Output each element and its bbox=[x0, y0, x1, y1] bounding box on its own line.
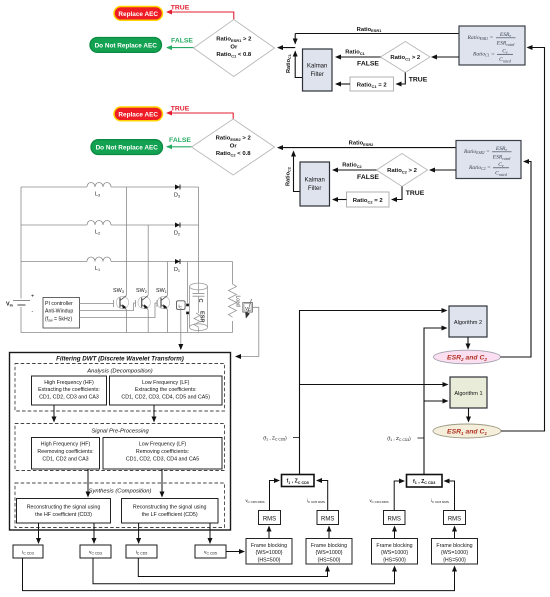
terminator Do Not Replace AEC row2 bbox=[91, 140, 163, 155]
svg-text:ESR2 and C2: ESR2 and C2 bbox=[447, 355, 487, 363]
process Ratio_C1=2 box bbox=[350, 77, 394, 91]
svg-text:High Frequency (HF): High Frequency (HF) bbox=[44, 380, 94, 386]
terminator Replace AEC row2 bbox=[114, 107, 163, 121]
wire iC CD5 bus to FB2 bbox=[138, 558, 327, 577]
wire SW3 vertical bbox=[126, 187, 128, 295]
diode D1 bbox=[174, 259, 180, 273]
svg-text:TRUE: TRUE bbox=[171, 105, 190, 112]
wire Ratio_C2=2 to Kalman2 bbox=[333, 199, 347, 201]
node L1 label bbox=[95, 266, 100, 272]
diode D3 bbox=[174, 185, 180, 199]
svg-text:L2: L2 bbox=[95, 230, 100, 236]
svg-text:RatioC1 = 2: RatioC1 = 2 bbox=[357, 83, 388, 89]
svg-text:Low Frequency (LF): Low Frequency (LF) bbox=[142, 380, 190, 386]
process f1 ZC CD3 box bbox=[407, 475, 443, 488]
svg-text:vC CD5: vC CD5 bbox=[204, 551, 217, 556]
node iC CD3 box bbox=[13, 545, 43, 558]
svg-text:iC CD3 RMS: iC CD3 RMS bbox=[431, 498, 449, 504]
svg-text:RatioESR1: RatioESR1 bbox=[357, 27, 382, 33]
wire Ratio_C1=2 to Kalman1 bbox=[336, 83, 350, 85]
process Ratio_C2=2 box bbox=[347, 192, 390, 207]
svg-text:RMS: RMS bbox=[448, 516, 461, 522]
process reconstruct HF box bbox=[17, 499, 111, 524]
wire TRUE drop row2 bbox=[392, 187, 425, 200]
process RMS 4 bbox=[444, 511, 466, 525]
svg-text:{WS=1000}: {WS=1000} bbox=[381, 550, 408, 556]
svg-text:Filtering DWT (Discrete Wavele: Filtering DWT (Discrete Wavelet Transfor… bbox=[56, 355, 184, 362]
svg-text:ESR: ESR bbox=[199, 311, 205, 323]
sensor iC probe bbox=[177, 262, 189, 333]
svg-text:{WS=1000}: {WS=1000} bbox=[441, 550, 468, 556]
capacitor C with ESR cylinder bbox=[190, 283, 208, 332]
svg-text:CD1, CD2 and CA3: CD1, CD2 and CA3 bbox=[42, 456, 88, 462]
svg-text:SW1: SW1 bbox=[156, 288, 167, 294]
svg-text:TRUE: TRUE bbox=[406, 190, 425, 197]
svg-text:{HS=500}: {HS=500} bbox=[258, 558, 281, 564]
svg-text:RMS: RMS bbox=[388, 516, 401, 522]
svg-text:Algorithm 2: Algorithm 2 bbox=[454, 320, 482, 326]
svg-text:Vin: Vin bbox=[6, 302, 14, 308]
inductor L2 bbox=[87, 221, 111, 226]
wire bottom rail bbox=[21, 307, 233, 333]
decision small diamond Ratio_C1>2 bbox=[381, 42, 431, 73]
node f1 ZC CD5 label bbox=[263, 435, 299, 441]
svg-text:Kalman: Kalman bbox=[305, 178, 325, 184]
svg-text:D2: D2 bbox=[174, 231, 180, 237]
svg-text:PI controller: PI controller bbox=[45, 301, 73, 307]
node iC CD5 box bbox=[126, 545, 157, 558]
group Synthesis dashed box bbox=[15, 483, 225, 528]
svg-text:Kalman: Kalman bbox=[307, 64, 327, 70]
svg-text:(f1 , ZC CD5): (f1 , ZC CD5) bbox=[263, 435, 287, 441]
svg-text:{WS=1000}: {WS=1000} bbox=[256, 550, 283, 556]
wire row L1 bbox=[21, 261, 87, 263]
wire fZ3 up to Algorithm2 input2 bbox=[424, 328, 447, 475]
svg-text:Frame blocking: Frame blocking bbox=[311, 543, 347, 549]
svg-text:Replace AEC: Replace AEC bbox=[118, 111, 158, 118]
transistor SW2 bbox=[136, 288, 151, 310]
svg-text:{HS=500}: {HS=500} bbox=[383, 558, 406, 564]
process reconstruct LF box bbox=[122, 499, 219, 524]
node f1 ZC CD3 label bbox=[387, 436, 424, 442]
svg-text:ESR1 and C1: ESR1 and C1 bbox=[447, 429, 487, 437]
terminator Replace AEC row1 bbox=[114, 7, 163, 21]
process PI controller box bbox=[43, 298, 80, 329]
wire eqbox1 to small diamond1 bbox=[432, 56, 459, 58]
node L3 label bbox=[95, 192, 100, 198]
svg-text:Frame blocking: Frame blocking bbox=[436, 543, 472, 549]
wire PI gate leads bbox=[80, 303, 158, 318]
process Frame blocking 3 bbox=[372, 539, 418, 565]
equations row2 bbox=[463, 146, 512, 177]
svg-text:the LF coefficient (CD5): the LF coefficient (CD5) bbox=[142, 512, 198, 518]
wire vC CD5 to FB1 bbox=[226, 551, 244, 553]
svg-text:Filter: Filter bbox=[311, 72, 324, 78]
svg-text:SW3: SW3 bbox=[113, 288, 124, 294]
process equation box row2 bbox=[456, 141, 521, 179]
process DWT outer box bbox=[10, 353, 231, 531]
process Frame blocking 1 bbox=[246, 539, 292, 565]
svg-text:RMS: RMS bbox=[263, 516, 276, 522]
process RMS 2 bbox=[317, 511, 339, 525]
process RMS 1 bbox=[259, 511, 281, 525]
group Signal Pre-Processing dashed box bbox=[15, 424, 225, 471]
wire red TRUE row1 bbox=[167, 12, 234, 20]
svg-text:CD1, CD2, CD3 and CA3: CD1, CD2, CD3 and CA3 bbox=[39, 395, 99, 401]
process f1 ZC CD5 box bbox=[282, 475, 315, 487]
svg-text:RatioC2: RatioC2 bbox=[286, 167, 292, 186]
svg-text:RatioC1 > 2: RatioC1 > 2 bbox=[390, 55, 421, 61]
wire green FALSE row2 bbox=[167, 146, 192, 148]
svg-text:+: + bbox=[31, 294, 34, 300]
svg-text:RatioC1: RatioC1 bbox=[345, 50, 365, 56]
wire ESR1C1 feedback to eqbox1 bbox=[501, 48, 545, 432]
transistor SW3 bbox=[113, 288, 129, 310]
process RMS 3 bbox=[384, 511, 406, 525]
process Kalman Filter row1 bbox=[303, 49, 333, 91]
svg-text:D3: D3 bbox=[174, 193, 180, 199]
wire SW2 vertical bbox=[147, 225, 149, 295]
inductor L1 bbox=[87, 257, 111, 262]
svg-text:Filter: Filter bbox=[308, 186, 321, 192]
process HF removing box bbox=[32, 438, 100, 470]
wire iC to DWT bbox=[180, 309, 182, 349]
transistor SW1 bbox=[156, 288, 170, 310]
svg-text:Low Frequency (LF): Low Frequency (LF) bbox=[139, 442, 187, 448]
svg-text:RatioESR2 > 2: RatioESR2 > 2 bbox=[216, 136, 252, 142]
svg-text:{HS=500}: {HS=500} bbox=[318, 558, 341, 564]
process Algorithm 1 box bbox=[450, 377, 487, 408]
svg-text:FALSE: FALSE bbox=[169, 137, 191, 144]
process HF extract box bbox=[32, 376, 107, 405]
svg-text:RatioC2 = 2: RatioC2 = 2 bbox=[353, 198, 384, 204]
svg-text:Frame blocking: Frame blocking bbox=[251, 543, 287, 549]
svg-text:CD1, CD2, CD3, CD4, CD5 and CA: CD1, CD2, CD3, CD4, CD5 and CA5) bbox=[121, 395, 210, 401]
wire left bus bbox=[20, 187, 22, 299]
node iC CD5 RMS label bbox=[307, 498, 325, 504]
svg-text:RatioC2: RatioC2 bbox=[342, 163, 362, 169]
node Ratio_C1 rotated label row1 bbox=[286, 54, 292, 73]
svg-text:Removing coefficients:: Removing coefficients: bbox=[136, 449, 189, 455]
equations row1 bbox=[467, 32, 516, 63]
svg-text:RatioC2 > 2: RatioC2 > 2 bbox=[387, 168, 418, 174]
svg-text:FALSE: FALSE bbox=[357, 60, 379, 67]
wire small diamond2 to Kalman2 FALSE bbox=[333, 163, 379, 181]
svg-text:RatioESR1 > 2: RatioESR1 > 2 bbox=[216, 37, 252, 43]
process Frame blocking 2 bbox=[306, 539, 352, 565]
svg-text:CD1, CD2, CD3, CD4 and CA5: CD1, CD2, CD3, CD4 and CA5 bbox=[126, 456, 199, 462]
wire row L2 bbox=[21, 224, 87, 226]
node vC CD3 box bbox=[80, 545, 111, 558]
wire fZ3 branch to Algorithm1 input2 bbox=[424, 400, 448, 402]
wire small diamond1 to Kalman1 FALSE bbox=[336, 50, 381, 68]
wire preproc to synthesis arrows bbox=[88, 469, 162, 497]
wire RMS2 to fZ5 bbox=[317, 481, 328, 511]
wire row L3 bbox=[21, 186, 87, 188]
svg-text:Synthesis (Composition): Synthesis (Composition) bbox=[89, 488, 152, 494]
process LF extract box bbox=[110, 376, 223, 405]
wire into diamond1 right vertex bbox=[278, 34, 303, 78]
wire red TRUE row2 bbox=[167, 113, 233, 119]
wire vC to DWT bbox=[236, 307, 259, 356]
svg-text:FALSE: FALSE bbox=[357, 174, 379, 181]
wire SW1 vertical bbox=[167, 262, 169, 296]
terminator ESR1 and C1 oval bbox=[433, 424, 501, 438]
terminator Do Not Replace AEC row1 bbox=[90, 38, 162, 53]
node Ratio_C2 rotated label row2 bbox=[286, 167, 292, 186]
wire ESR2C2 feedback to eqbox2 bbox=[501, 162, 532, 358]
svg-text:{HS=500}: {HS=500} bbox=[443, 558, 466, 564]
svg-text:Extracting the coefficients:: Extracting the coefficients: bbox=[38, 387, 100, 393]
svg-text:FALSE: FALSE bbox=[171, 38, 193, 45]
svg-text:vC CD5 RMS: vC CD5 RMS bbox=[245, 498, 264, 504]
decision diamond Ratio_ESR1/Ratio_C1 row1 bbox=[194, 20, 275, 77]
svg-text:Or: Or bbox=[230, 143, 238, 149]
sensor vC probe bbox=[243, 299, 253, 318]
wire FB to RMS arrows bbox=[269, 527, 455, 539]
wire fZ5 branch to Algorithm1 input1 bbox=[300, 384, 448, 386]
node iC CD3 RMS label bbox=[431, 498, 449, 504]
svg-text:Extracting the coefficients:: Extracting the coefficients: bbox=[135, 387, 197, 393]
wire analysis to preproc arrows bbox=[54, 405, 154, 422]
group Analysis dashed box bbox=[15, 364, 225, 412]
svg-text:(f1 , ZC CD3): (f1 , ZC CD3) bbox=[387, 436, 411, 442]
decision diamond Ratio_ESR2/Ratio_C2 row2 bbox=[192, 119, 275, 175]
node vC CD5 RMS label bbox=[245, 498, 264, 504]
wire Ratio_ESR2 line into diamond2 bbox=[278, 141, 456, 192]
svg-text:Replace AEC: Replace AEC bbox=[118, 11, 158, 18]
node FALSE label row2 bbox=[169, 137, 191, 144]
wire RMS1 to fZ5 bbox=[270, 481, 280, 511]
svg-text:Reemoving coefficients:: Reemoving coefficients: bbox=[37, 449, 93, 455]
wire recon outputs to signal boxes bbox=[39, 523, 211, 543]
wire eqbox2 to small diamond2 bbox=[430, 169, 456, 171]
svg-text:Reconstructing the signal usin: Reconstructing the signal using bbox=[27, 504, 101, 510]
svg-text:RatioC2 =: RatioC2 = bbox=[468, 165, 491, 171]
node TRUE label row1 bbox=[171, 4, 190, 11]
node vC CD5 box bbox=[195, 545, 226, 558]
node L2 label bbox=[95, 230, 100, 236]
svg-text:-: - bbox=[32, 309, 34, 315]
svg-text:TRUE: TRUE bbox=[171, 4, 190, 11]
process LF removing box bbox=[103, 438, 222, 470]
svg-text:RatioC1 =: RatioC1 = bbox=[472, 52, 495, 58]
wire iC CD3 bus to FB4 bbox=[23, 558, 455, 591]
svg-text:Do Not Replace AEC: Do Not Replace AEC bbox=[96, 145, 159, 152]
inductor L3 bbox=[87, 183, 111, 188]
resistor Load bbox=[229, 284, 241, 317]
node vC CD3 RMS label bbox=[369, 498, 388, 504]
svg-text:Algorithm 1: Algorithm 1 bbox=[454, 391, 482, 397]
svg-text:D1: D1 bbox=[174, 267, 180, 273]
svg-text:C: C bbox=[197, 299, 203, 303]
svg-text:iC CD5 RMS: iC CD5 RMS bbox=[307, 498, 325, 504]
svg-text:L1: L1 bbox=[95, 266, 100, 272]
wire RMS3 to fZ3 bbox=[394, 481, 404, 511]
node FALSE label row1 bbox=[171, 38, 193, 45]
svg-text:RatioC1: RatioC1 bbox=[286, 54, 292, 73]
node TRUE label row2 bbox=[171, 105, 190, 112]
wire RMS4 to fZ3 bbox=[445, 481, 455, 511]
diode D2 bbox=[174, 223, 180, 237]
svg-text:vC CD3: vC CD3 bbox=[89, 551, 102, 556]
svg-text:Signal Pre-Processing: Signal Pre-Processing bbox=[91, 429, 149, 435]
svg-text:SW2: SW2 bbox=[136, 288, 147, 294]
svg-text:Or: Or bbox=[230, 44, 238, 50]
svg-text:RMS: RMS bbox=[321, 516, 334, 522]
decision small diamond Ratio_C2>2 bbox=[377, 154, 428, 187]
svg-text:Frame blocking: Frame blocking bbox=[376, 543, 412, 549]
wire diode output vertical bbox=[198, 187, 200, 284]
process equation box row1 bbox=[459, 26, 525, 65]
svg-text:L3: L3 bbox=[95, 192, 100, 198]
terminator ESR2 and C2 oval bbox=[434, 350, 501, 364]
source Vin battery bbox=[6, 294, 34, 315]
svg-text:Do Not Replace AEC: Do Not Replace AEC bbox=[95, 42, 158, 49]
wire Ratio_ESR1 line row1 bbox=[295, 27, 459, 34]
process Frame blocking 4 bbox=[432, 539, 478, 565]
svg-text:RatioC1 < 0.8: RatioC1 < 0.8 bbox=[216, 52, 251, 58]
svg-text:Reconstructing the signal usin: Reconstructing the signal using bbox=[133, 504, 207, 510]
svg-text:{WS=1000}: {WS=1000} bbox=[316, 550, 343, 556]
wire Algorithm1 to oval bbox=[468, 408, 470, 422]
wire load branch vertical bbox=[232, 262, 234, 285]
wire vC CD3 bus to FB3 bbox=[93, 558, 395, 584]
svg-text:High Frequency (HF): High Frequency (HF) bbox=[41, 442, 91, 448]
svg-text:vC CD3 RMS: vC CD3 RMS bbox=[369, 498, 388, 504]
wire TRUE drop row1 bbox=[397, 73, 428, 85]
svg-text:Analysis (Decomposition): Analysis (Decomposition) bbox=[86, 368, 152, 374]
svg-text:the HF coefficient (CD3): the HF coefficient (CD3) bbox=[35, 512, 92, 518]
process Algorithm 2 box bbox=[449, 306, 487, 337]
process Kalman Filter row2 bbox=[300, 162, 330, 206]
svg-text:RatioESR2: RatioESR2 bbox=[349, 141, 374, 147]
svg-text:RatioC2 < 0.8: RatioC2 < 0.8 bbox=[216, 151, 251, 157]
svg-text:TRUE: TRUE bbox=[409, 77, 428, 84]
svg-text:Load: Load bbox=[235, 296, 241, 307]
wire Algorithm2 to oval bbox=[467, 337, 469, 349]
wire green FALSE row1 bbox=[167, 47, 194, 49]
svg-text:Anti-Windup: Anti-Windup bbox=[45, 308, 73, 314]
wire fZ5 up to Algorithm2 input1 bbox=[300, 311, 447, 475]
